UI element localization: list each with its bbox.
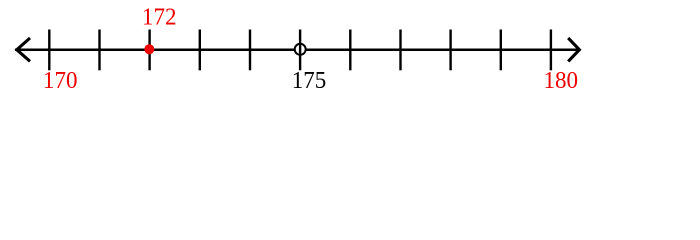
wire number line main axis [15,48,580,51]
tick 172 [148,30,150,71]
left arrowhead [17,38,30,61]
tick 180 [550,30,552,71]
svg-text:172: 172 [142,4,177,31]
tick 170 [48,30,50,71]
tick 177 [399,30,401,71]
tick 174 [249,30,251,71]
open circle at 175 [295,44,306,55]
tick 178 [449,30,451,71]
tick 171 [98,30,100,71]
tick 176 [349,30,351,71]
svg-text:180: 180 [543,67,578,94]
svg-text:175: 175 [292,67,327,94]
right arrowhead [568,38,579,61]
tick 179 [500,30,502,71]
tick 173 [199,30,201,71]
tick 175 (drawn over circle) [299,30,301,71]
svg-text:170: 170 [43,67,78,94]
filled point at 172 [144,44,154,54]
